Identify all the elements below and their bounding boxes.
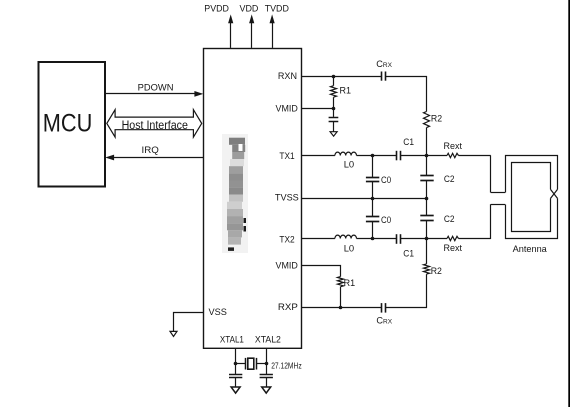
svg-text:R2: R2	[431, 266, 442, 277]
svg-text:VMID: VMID	[276, 261, 298, 272]
wire R2 bottom to RXP	[426, 274, 428, 308]
wire Rext to antenna bottom	[459, 238, 491, 240]
wire TX2	[301, 238, 335, 240]
capacitor CRX bottom	[382, 303, 386, 313]
svg-text:27.12MHz: 27.12MHz	[271, 362, 302, 371]
PVDD arrowhead	[228, 14, 233, 23]
svg-text:PDOWN: PDOWN	[138, 82, 174, 92]
image right border	[568, 0, 570, 407]
wire XTAL1 cap to ground	[235, 378, 237, 387]
svg-text:C0: C0	[381, 215, 391, 226]
wire crystal left	[236, 363, 246, 365]
node TX1/C2/R2 junction	[425, 154, 429, 158]
capacitor C1 top	[397, 151, 401, 161]
wire CRX to corner	[385, 76, 427, 78]
capacitor CRX top	[382, 72, 386, 81]
PDOWN wire	[105, 93, 196, 95]
node RXN/R1 junction	[332, 75, 336, 79]
resistor R1 top	[331, 86, 337, 98]
host interface double arrow	[107, 110, 202, 137]
svg-text:C1: C1	[403, 137, 414, 148]
ground XTAL2	[262, 387, 271, 393]
crystal Y1 plates	[246, 358, 257, 370]
svg-text:RXN: RXN	[278, 71, 297, 82]
svg-text:PVDD: PVDD	[204, 4, 229, 14]
wire C1 to Rext bottom	[400, 238, 447, 240]
svg-text:L0: L0	[344, 243, 355, 254]
crystal Y1 body	[248, 358, 254, 369]
wire XTAL2	[266, 348, 268, 374]
capacitor C1 bottom	[397, 234, 401, 244]
svg-text:TX1: TX1	[279, 151, 294, 162]
wire CRX to corner	[385, 307, 427, 309]
wire L0 to C1	[357, 155, 397, 157]
wire TX1	[301, 155, 335, 157]
capacitor C2 bottom	[420, 216, 433, 221]
censored chip name mosaic	[222, 134, 248, 253]
PVDD pin wire	[230, 21, 232, 48]
svg-text:XTAL1: XTAL1	[220, 334, 244, 345]
capacitor C0 bottom stem upper	[372, 198, 374, 216]
svg-text:IRQ: IRQ	[142, 145, 159, 155]
wire antenna feed top vertical	[490, 155, 492, 192]
ground XTAL1	[231, 387, 240, 393]
TVDD pin wire	[272, 21, 274, 48]
svg-text:MCU: MCU	[43, 110, 93, 138]
wire antenna feed bottom horizontal	[491, 204, 506, 206]
svg-text:TVDD: TVDD	[265, 4, 290, 14]
capacitor C0 bottom	[366, 217, 379, 222]
wire Rext to antenna	[459, 155, 491, 157]
capacitor C0 top stem upper	[372, 155, 374, 177]
inductor L0 top	[335, 152, 357, 155]
ground VMID	[330, 132, 337, 137]
PDOWN arrowhead	[194, 91, 203, 97]
wire C1 to Rext	[400, 155, 447, 157]
wire XTAL2 cap to ground	[266, 378, 268, 387]
node XTAL2 junction	[265, 362, 269, 366]
wire VMID	[301, 108, 334, 110]
node TX2/C2/R2 junction	[425, 237, 429, 241]
svg-text:RX: RX	[383, 62, 392, 69]
C0 top stem lower	[372, 182, 374, 198]
IRQ arrowhead	[105, 155, 114, 161]
capacitor C0 top	[366, 178, 379, 182]
svg-text:R1: R1	[344, 278, 356, 289]
resistor R2 bottom	[424, 264, 430, 274]
wire R2 to TX1	[426, 128, 428, 156]
svg-text:Rext: Rext	[444, 243, 463, 254]
wire antenna feed bottom vertical	[490, 204, 492, 239]
capacitor VMID decoupling	[329, 118, 339, 122]
TVDD arrowhead	[270, 14, 275, 23]
capacitor XTAL1	[229, 375, 242, 378]
resistor Rext bottom	[447, 236, 459, 240]
svg-text:VDD: VDD	[240, 4, 259, 14]
svg-text:Antenna: Antenna	[513, 244, 548, 254]
svg-text:C2: C2	[444, 174, 455, 185]
antenna inner loop	[512, 163, 551, 232]
svg-text:TVSS: TVSS	[275, 193, 299, 204]
node XTAL1 junction	[234, 362, 238, 366]
C2 bottom stem lower	[426, 220, 428, 239]
svg-text:L0: L0	[344, 159, 355, 170]
svg-text:XTAL2: XTAL2	[255, 334, 281, 345]
node TX2/C0 junction	[371, 237, 375, 241]
svg-text:R2: R2	[431, 113, 442, 124]
wire R2 bottom upper lead	[426, 239, 428, 264]
wire R1 to VMID	[333, 97, 335, 117]
ground VSS	[170, 331, 177, 336]
VDD pin wire	[251, 21, 253, 48]
C2 top stem lower	[426, 180, 428, 198]
svg-text:RX: RX	[383, 319, 392, 326]
svg-text:RXP: RXP	[278, 302, 298, 313]
resistor R1 top lead	[333, 76, 335, 86]
capacitor C2 top stem upper	[426, 155, 428, 175]
svg-text:Host Interface: Host Interface	[122, 118, 189, 132]
node TVSS/C2 junction	[425, 197, 429, 201]
capacitor C2 bottom stem upper	[426, 198, 428, 215]
resistor R2 top	[424, 112, 430, 128]
wire crystal right	[256, 363, 266, 365]
node TVSS/C0 junction	[371, 197, 375, 201]
wire R1 bottom to RXP	[340, 287, 342, 308]
capacitor XTAL2	[260, 375, 273, 378]
chip U1 box	[204, 49, 302, 349]
node TX1/C0 junction	[371, 154, 375, 158]
resistor R1 bottom	[338, 277, 344, 287]
MCU box	[39, 62, 106, 187]
node RXP/R1 junction	[339, 306, 343, 310]
svg-text:TX2: TX2	[279, 234, 294, 245]
wire RXN	[301, 76, 381, 78]
inductor L0 bottom	[335, 235, 357, 238]
resistor Rext top	[447, 153, 459, 157]
wire TVSS	[301, 198, 427, 200]
wire VSS	[174, 313, 204, 332]
wire cap to ground	[333, 122, 335, 132]
VDD arrowhead	[249, 14, 254, 23]
C0 bottom stem lower	[372, 221, 374, 239]
wire RXP	[301, 307, 381, 309]
svg-text:VMID: VMID	[276, 103, 298, 114]
svg-text:VSS: VSS	[209, 307, 227, 317]
svg-text:R1: R1	[340, 86, 352, 97]
svg-text:C0: C0	[381, 175, 391, 186]
svg-text:Rext: Rext	[444, 141, 463, 152]
wire L0 to C1 bottom	[357, 238, 397, 240]
wire corner down to R2	[426, 76, 428, 112]
wire XTAL1	[235, 348, 237, 374]
antenna crossover	[551, 189, 558, 198]
svg-text:C2: C2	[444, 214, 455, 225]
capacitor C2 top	[420, 176, 433, 181]
wire VMID bottom	[301, 266, 341, 277]
svg-text:C1: C1	[403, 249, 414, 260]
node VMID/R1 junction	[332, 107, 336, 111]
wire antenna feed top horizontal	[491, 192, 506, 194]
IRQ wire	[113, 157, 204, 159]
antenna outer loop	[506, 156, 558, 239]
